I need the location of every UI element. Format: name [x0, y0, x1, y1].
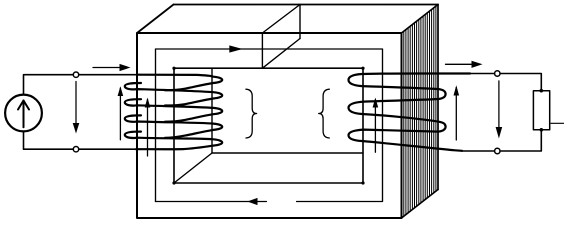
core section cut top depth edge — [262, 5, 300, 34]
flux arrow left on bottom line — [247, 198, 257, 205]
primary coil L1 — [125, 75, 222, 150]
core front face outer rectangle — [137, 33, 402, 218]
terminal left bottom — [73, 147, 78, 152]
core top-left depth edge — [137, 5, 174, 34]
core section cut back edge — [299, 5, 301, 39]
core window front rectangle — [174, 68, 363, 183]
brace left-pointing (right) — [319, 89, 330, 138]
window bottom-left depth edge — [174, 153, 212, 183]
window back-bottom edge — [212, 152, 363, 154]
core back-right edge — [437, 5, 439, 190]
core top-right depth edge — [402, 5, 439, 34]
voltage arrow (right, down) — [498, 81, 500, 129]
flux arrow up (outside left limb) — [119, 88, 121, 140]
wire: secondary bottom to load — [462, 130, 541, 151]
window corner dots — [172, 67, 364, 185]
current source I — [5, 95, 42, 132]
window back-left edge — [211, 68, 213, 153]
primary coil turn 4 and lead-out — [125, 132, 222, 150]
brace right-pointing (left) — [246, 89, 257, 138]
flux arrow right on top line — [229, 45, 242, 52]
current source arrow — [18, 101, 29, 128]
core bottom-right depth edge — [402, 190, 439, 219]
terminal left top — [73, 72, 78, 77]
resistor R (load) — [533, 91, 549, 130]
primary coil lead-in turn — [138, 75, 222, 91]
primary coil turn 3 — [125, 115, 222, 137]
flux arrow up (inside left limb) — [147, 100, 149, 157]
core section cut bottom depth edge — [262, 39, 300, 69]
flux path rectangle — [156, 49, 383, 202]
voltage arrow (left, down) — [75, 82, 77, 125]
laminations on right side face — [404, 6, 436, 216]
terminal right top — [495, 71, 500, 76]
flux arrow up (right of laminations) — [455, 88, 457, 141]
secondary coil L2 — [349, 74, 471, 151]
wire: source bottom to bottom-left wire — [24, 131, 136, 149]
resistor junction dots — [540, 89, 544, 132]
wire: source top to top-left wire — [24, 75, 141, 95]
core top face back edge — [174, 4, 439, 6]
primary coil turn 2 — [125, 99, 222, 122]
flux arrow up (inside right limb) — [374, 100, 376, 153]
current direction arrow (right top) — [446, 63, 474, 65]
current direction arrow (left top) — [93, 67, 121, 69]
primary coil turn 1 — [125, 83, 222, 106]
wire: secondary top to load — [462, 74, 541, 91]
label leader line — [551, 122, 564, 124]
terminal right bottom — [495, 148, 500, 153]
core section cut front edge — [261, 33, 263, 68]
